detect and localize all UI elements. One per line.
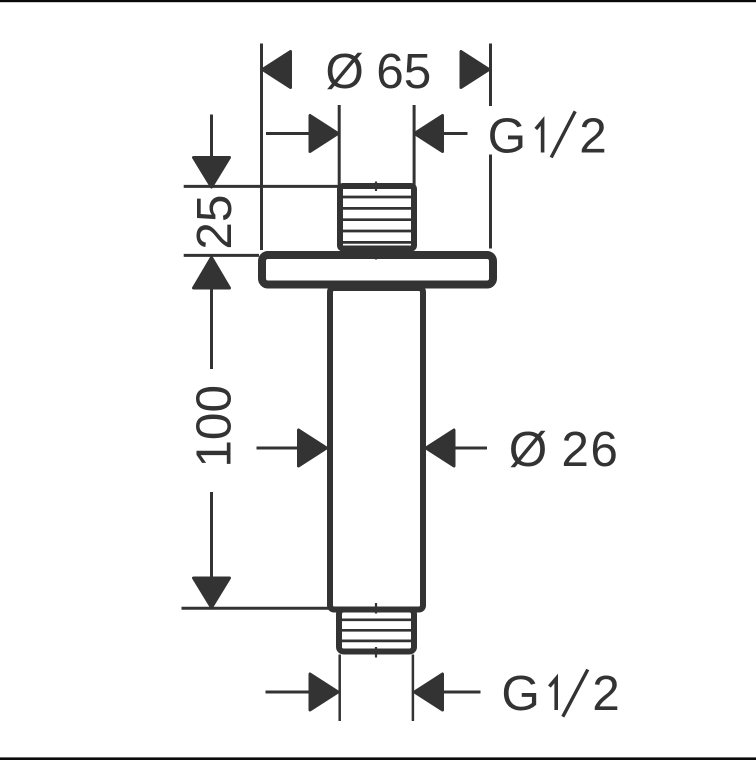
arrowhead right-pointing (G1/2 top) — [310, 116, 338, 152]
bottom threaded connector body — [339, 610, 414, 652]
reference line pipe bottom (100 dim) — [182, 607, 330, 610]
extension line right upper (dia 65) — [489, 44, 492, 107]
label G1/2 bottom: digit 1 — [549, 679, 556, 711]
svg-text:25: 25 — [187, 195, 242, 250]
arrowhead up (100 dim) — [194, 258, 230, 289]
svg-text:G: G — [488, 109, 527, 164]
bottom border bar — [0, 757, 756, 760]
nipple right wall — [412, 655, 415, 722]
center tick flange top — [375, 250, 377, 260]
extension line left (dia 65) — [260, 44, 263, 251]
extension line left (G1/2 top) — [338, 105, 341, 186]
svg-text:26: 26 — [561, 422, 619, 477]
tail line right (G1/2 bottom) — [442, 691, 481, 694]
arrowhead down (100 dim) — [194, 578, 230, 608]
dim stem above down-arrow (100 dim) — [210, 492, 213, 579]
arrowhead left-pointing (G1/2 top) — [415, 116, 443, 152]
svg-text:2: 2 — [592, 666, 620, 721]
arrowhead right-pointing (G1/2 bottom) — [310, 674, 338, 710]
arrowhead right (dia 65) — [461, 52, 489, 88]
reference line flange top (25/100 dim) — [184, 254, 259, 257]
label G1/2 top: fraction slash — [551, 111, 575, 157]
tail line right (dia 26) — [454, 447, 488, 450]
tail line left (G1/2 bottom) — [266, 691, 312, 694]
pipe body (dia 26) — [330, 288, 423, 610]
label G1/2 bottom: fraction slash — [563, 670, 588, 717]
nipple left wall — [338, 655, 341, 722]
top threaded connector body — [340, 186, 414, 249]
svg-text:Ø: Ø — [325, 44, 364, 99]
tail line left (dia 26) — [257, 447, 300, 450]
center tick pipe bottom — [375, 603, 377, 614]
arrowhead left (dia 65) — [263, 52, 291, 88]
svg-text:2: 2 — [579, 109, 607, 164]
reference line thread top (25 dim) — [184, 185, 341, 188]
extension line right (G1/2 top) — [413, 105, 416, 186]
arrowhead left-pointing (G1/2 bottom) — [415, 674, 443, 710]
svg-text:G: G — [501, 666, 540, 721]
extension line right lower (dia 65) — [489, 155, 492, 249]
center tick thread bottom — [375, 647, 377, 658]
label G1/2 top: digit 1 — [536, 121, 543, 153]
tail line right (G1/2 top) — [442, 132, 468, 135]
arrowhead down (25 dim) — [194, 158, 230, 188]
top thread knurl lines — [343, 197, 411, 242]
arrowhead right-pointing (dia 26) — [299, 430, 327, 466]
svg-text:Ø: Ø — [509, 422, 548, 477]
top border bar — [0, 0, 756, 2]
svg-text:100: 100 — [186, 385, 241, 468]
arrowhead left-pointing (dia 26) — [426, 430, 454, 466]
tail line left (G1/2 top) — [266, 132, 311, 135]
svg-text:65: 65 — [376, 44, 431, 99]
bottom thread knurl lines — [342, 620, 411, 641]
ceiling flange plate — [262, 255, 493, 285]
dim stem above down-arrow (25 dim) — [210, 115, 213, 159]
center tick thread top — [375, 182, 377, 192]
dim stem below up-arrow (100 dim) — [210, 287, 213, 369]
